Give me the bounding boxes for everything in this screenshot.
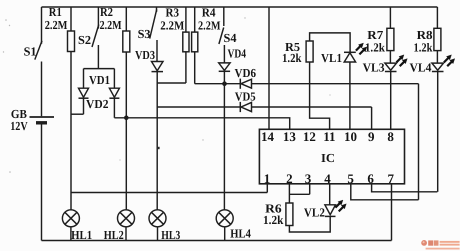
resistor R2 <box>123 7 130 210</box>
svg-text:VD4: VD4 <box>228 47 247 61</box>
svg-text:14: 14 <box>261 129 275 144</box>
svg-text:VD6: VD6 <box>235 66 257 80</box>
wire IC pin 3 <box>309 184 311 195</box>
resistor R7 <box>387 7 394 63</box>
wire R1 to VD1 branch <box>71 113 84 115</box>
svg-text:11: 11 <box>323 129 335 144</box>
lamp HL4 <box>216 210 233 241</box>
diode VD6 <box>240 79 418 89</box>
wire IC pin 6 to VL4 net <box>372 184 438 192</box>
LED VL4 <box>432 63 444 192</box>
LED VL3 light arrows <box>396 55 404 63</box>
wire lamp top bus <box>71 192 267 194</box>
svg-text:2.2M: 2.2M <box>160 19 184 33</box>
svg-text:2.2M: 2.2M <box>100 18 122 32</box>
LED VL1 light arrows <box>356 43 364 51</box>
battery GB 12V <box>30 117 55 241</box>
lamp HL1 <box>62 210 79 241</box>
resistor R1 <box>68 7 75 210</box>
svg-text:VL3: VL3 <box>363 61 385 75</box>
diode VD4 <box>219 63 230 210</box>
svg-text:HL3: HL3 <box>161 228 180 242</box>
svg-text:2.2M: 2.2M <box>45 18 68 32</box>
op-amp IC box <box>259 129 404 184</box>
svg-text:5: 5 <box>347 171 354 186</box>
wire +12V top rail <box>42 6 438 8</box>
svg-text:VD2: VD2 <box>86 97 109 111</box>
switch S4 <box>219 7 225 63</box>
svg-text:VD3: VD3 <box>135 48 155 62</box>
svg-text:S1: S1 <box>24 44 37 58</box>
resistor R6 <box>286 203 330 232</box>
svg-text:12V: 12V <box>10 119 28 133</box>
svg-text:1.2k: 1.2k <box>282 51 302 65</box>
svg-text:HL2: HL2 <box>104 228 124 242</box>
resistor R4 <box>192 7 198 84</box>
paper speckles <box>3 17 331 173</box>
LED VL2 light arrows <box>335 200 343 208</box>
node junction R2/VD2 <box>124 116 129 121</box>
wire pin2-pin3 join <box>289 193 309 195</box>
svg-text:R3: R3 <box>166 6 180 20</box>
switch S3 <box>150 7 157 62</box>
resistor R3 <box>183 7 189 83</box>
svg-text:HL4: HL4 <box>230 226 251 240</box>
svg-text:R2: R2 <box>100 5 113 19</box>
svg-text:3: 3 <box>305 171 312 186</box>
wire top rail to IC pin 14 <box>268 7 270 129</box>
svg-text:8: 8 <box>387 129 394 144</box>
svg-text:1: 1 <box>264 171 271 186</box>
svg-text:VD5: VD5 <box>235 89 256 103</box>
svg-text:HL1: HL1 <box>71 228 92 242</box>
svg-text:2.2M: 2.2M <box>198 19 221 33</box>
lamp HL2 <box>118 210 135 241</box>
wire VD5 net to IC pin 9 <box>371 107 373 129</box>
switch S1 <box>35 7 42 116</box>
wire IC pin 2 <box>288 184 290 203</box>
svg-text:S4: S4 <box>224 31 237 45</box>
wire IC pin 1 to lamp bus <box>266 184 268 193</box>
LED VL2 <box>325 205 336 217</box>
wire IC pin 4 to VL2 <box>329 184 331 205</box>
wire VD2/R2 node to IC pin 13 <box>114 118 289 130</box>
wire IC pin 5 to VD6 net <box>351 184 419 200</box>
switch S2 <box>92 7 99 69</box>
svg-text:VL4: VL4 <box>410 61 432 75</box>
diode VD1 <box>79 69 115 115</box>
svg-text:13: 13 <box>283 129 297 144</box>
lamp HL3 <box>149 210 166 241</box>
diode VD3 <box>152 62 164 210</box>
wire bottom negative bus <box>42 240 392 242</box>
diode VD2 <box>109 69 119 118</box>
svg-text:6: 6 <box>367 171 374 186</box>
svg-text:IC: IC <box>321 151 335 165</box>
wire VD3 to R3 <box>157 82 186 84</box>
LED VL4 light arrows <box>444 55 452 63</box>
svg-text:VD1: VD1 <box>89 73 110 87</box>
node junction S4/VD4 line <box>222 81 227 86</box>
svg-text:2: 2 <box>286 171 293 186</box>
diode VD5 <box>157 102 371 112</box>
svg-text:12: 12 <box>303 129 316 144</box>
wire VD6 net down right side <box>418 84 420 200</box>
svg-text:9: 9 <box>368 129 375 144</box>
svg-text:1.2k: 1.2k <box>263 213 284 227</box>
svg-text:VL1: VL1 <box>321 51 342 65</box>
watermark logo <box>421 240 459 250</box>
svg-text:R1: R1 <box>49 5 62 19</box>
wire R4 to VD6 net <box>195 83 240 85</box>
resistor R8 <box>434 7 441 63</box>
svg-text:1.2k: 1.2k <box>365 41 385 55</box>
svg-text:7: 7 <box>387 171 394 186</box>
svg-text:4: 4 <box>324 171 331 186</box>
svg-text:R4: R4 <box>202 6 216 20</box>
svg-text:1.2k: 1.2k <box>414 41 433 55</box>
svg-text:10: 10 <box>344 129 357 144</box>
svg-text:S2: S2 <box>78 33 91 47</box>
LED VL1 <box>344 52 356 129</box>
LED VL3 <box>385 63 397 129</box>
wire IC pin 7 to bottom bus <box>391 184 393 241</box>
resistor R5 <box>306 33 350 129</box>
svg-text:VL2: VL2 <box>304 206 325 220</box>
svg-text:S3: S3 <box>138 27 151 41</box>
